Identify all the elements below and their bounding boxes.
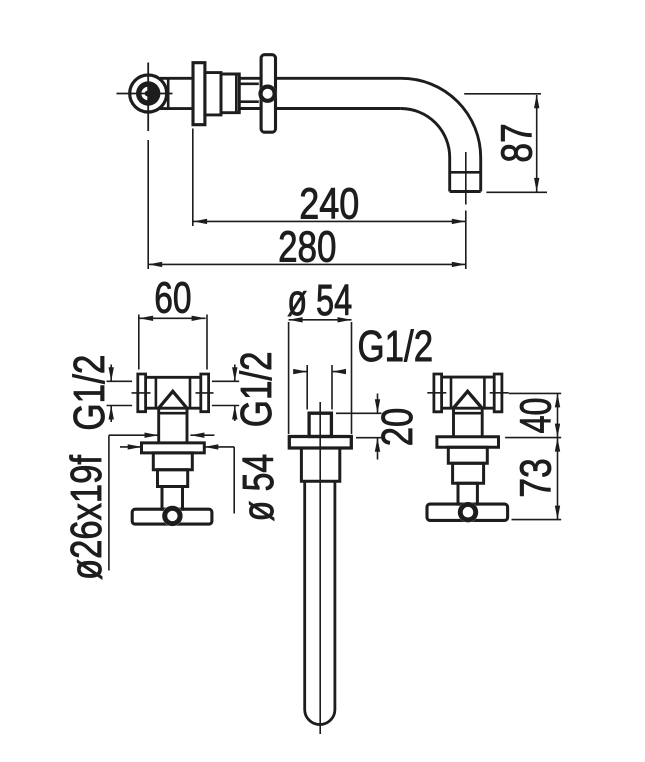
svg-text:60: 60 — [154, 273, 191, 322]
svg-text:280: 280 — [278, 223, 336, 272]
svg-text:240: 240 — [299, 180, 359, 229]
svg-text:G1/2: G1/2 — [232, 351, 281, 427]
svg-text:87: 87 — [493, 123, 542, 162]
svg-text:ø26x19f: ø26x19f — [62, 454, 111, 580]
svg-text:G1/2: G1/2 — [65, 355, 114, 431]
svg-text:73: 73 — [512, 458, 561, 498]
svg-text:ø 54: ø 54 — [287, 276, 352, 325]
svg-text:ø 54: ø 54 — [234, 454, 283, 522]
svg-text:40: 40 — [512, 398, 561, 434]
svg-text:20: 20 — [373, 408, 422, 447]
svg-text:G1/2: G1/2 — [358, 322, 434, 371]
